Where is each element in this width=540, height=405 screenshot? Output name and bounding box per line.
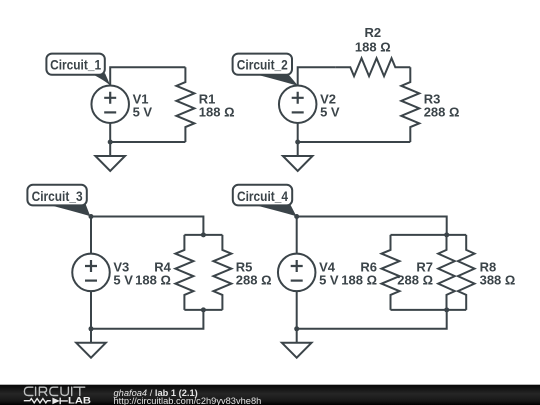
logo diode [52,398,59,405]
voltage source V3 [72,254,110,292]
callout Circuit_3 [45,204,90,216]
voltage source V1 [91,85,129,123]
resistor R4 [175,235,193,310]
wire feed down circuit 4 [297,310,447,329]
svg-text:188 Ω: 188 Ω [355,39,391,54]
svg-text:188 Ω: 188 Ω [199,105,235,120]
footer bar [0,385,540,405]
voltage source V2 [279,85,317,123]
junction dot circuit 3 bar top [201,232,206,237]
wire feed down circuit 3 [91,310,203,329]
junction dot circuit 1 [108,140,113,145]
logo CIRCUIT lettering [24,387,84,395]
junction dot circuit 4 bottom-left [294,326,299,331]
wire bottom rail circuit 1 [110,123,185,142]
svg-text:288 Ω: 288 Ω [397,273,433,288]
wire source leads circuit 3 [90,217,92,329]
voltage source V4 [278,254,316,292]
wire top rail circuit 1 [110,67,185,85]
resistor R8 [458,235,475,310]
resistor R2 [335,58,410,76]
wire bottom rail circuit 2 [298,123,411,142]
svg-text:5 V: 5 V [320,105,340,120]
svg-text:188 Ω: 188 Ω [341,273,377,288]
svg-text:288 Ω: 288 Ω [236,273,272,288]
ground circuit 1 [109,142,111,156]
svg-text:Circuit_3: Circuit_3 [32,189,83,204]
callout Circuit_4 [250,204,296,216]
wire top rail circuit 3 [91,217,203,235]
ground circuit 2 [297,142,299,156]
junction dot circuit 4 bar top [444,232,449,237]
wire parallel bottom bar circuit 4 [391,309,467,311]
wire parallel top bar circuit 4 [391,234,467,236]
svg-text:288 Ω: 288 Ω [424,105,460,120]
svg-text:LAB: LAB [68,395,91,405]
resistor R1 [176,67,194,142]
resistor R3 [401,67,419,142]
logo wire with resistor zigzag [24,399,51,403]
svg-text:http://circuitlab.com/c2h9yv83: http://circuitlab.com/c2h9yv83vhe8h [114,396,262,405]
wire top rail circuit 4 [297,217,447,235]
ground circuit 4 [296,329,298,343]
svg-text:188 Ω: 188 Ω [135,273,171,288]
wire source leads circuit 4 [296,217,298,329]
svg-text:5 V: 5 V [133,105,153,120]
svg-text:Circuit_1: Circuit_1 [50,58,101,73]
wire top rail circuit 2 [298,67,336,85]
junction dot circuit 3 bottom-left [89,326,94,331]
svg-text:Circuit_4: Circuit_4 [237,189,288,204]
resistor R6 [382,235,400,310]
junction dot circuit 3 bar bottom [201,307,206,312]
wire parallel bottom bar circuit 3 [184,309,222,311]
junction dot circuit 3 top-left [89,214,94,219]
svg-text:5 V: 5 V [113,273,133,288]
resistor R5 [213,235,231,310]
resistor R7 [438,235,455,310]
junction dot circuit 4 top-left [294,214,299,219]
svg-text:Circuit_2: Circuit_2 [237,58,288,73]
ground circuit 3 [90,329,92,343]
junction dot circuit 4 bar bottom [444,307,449,312]
svg-text:388 Ω: 388 Ω [480,273,516,288]
svg-text:R2: R2 [364,25,381,40]
junction dot circuit 2 [295,140,300,145]
callout Circuit_2 [252,73,298,86]
wire parallel top bar circuit 3 [184,234,222,236]
svg-text:5 V: 5 V [319,273,339,288]
callout Circuit_1 [91,73,111,86]
